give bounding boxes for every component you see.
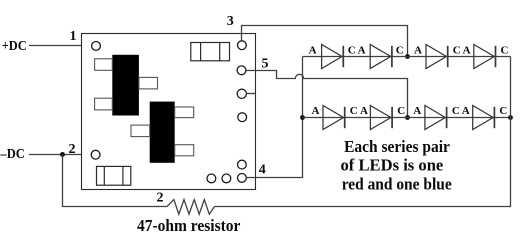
svg-text:2: 2 <box>69 142 76 157</box>
wire resistor to right return rail <box>215 206 512 208</box>
svg-text:C: C <box>350 105 358 117</box>
Q2 lead pad left <box>131 125 150 137</box>
junction row 2 left <box>300 115 305 120</box>
svg-text:A: A <box>462 105 470 117</box>
LED D8 triangle <box>473 106 494 130</box>
LED D2 triangle <box>370 45 391 69</box>
Q1 lead pad lower-left <box>95 98 113 110</box>
pin 3 pad <box>238 41 247 50</box>
unused pad left of pin 4 <box>207 174 216 183</box>
svg-text:1: 1 <box>70 29 77 44</box>
svg-text:A: A <box>414 44 422 56</box>
LED D6 triangle <box>370 106 391 130</box>
transistor Q1 body <box>112 55 139 116</box>
LED D2 cathode bar <box>391 46 393 67</box>
wire right return rail down <box>510 57 512 207</box>
resistor R3 47-ohm zigzag <box>167 200 215 215</box>
resistor R2 (SMD outline, bottom left) <box>97 166 131 185</box>
driver module board outline <box>82 34 256 190</box>
junction row 1 midpoint <box>405 54 410 59</box>
svg-text:A: A <box>413 105 421 117</box>
svg-text:A: A <box>360 105 368 117</box>
pin 1 pad <box>92 42 101 51</box>
LED D7 cathode bar <box>446 107 448 128</box>
LED D4 triangle <box>474 45 495 69</box>
svg-text:C: C <box>396 44 404 56</box>
svg-text:+DC: +DC <box>2 39 27 54</box>
svg-text:47-ohm resistor: 47-ohm resistor <box>137 216 241 235</box>
svg-text:red and one blue: red and one blue <box>342 175 452 194</box>
wire pin 3 up and over to row 1 midpoint <box>242 26 408 57</box>
resistor R1 (SMD outline, top right) <box>191 43 230 61</box>
Q2 lead pad lower-right <box>175 145 194 156</box>
wire -DC to pin 2 <box>29 154 91 156</box>
Q1 lead pad upper-left <box>95 59 113 71</box>
wire LED row 1 rail <box>303 56 511 58</box>
LED D3 cathode bar <box>447 46 449 67</box>
wire +DC to pin 1 <box>29 45 92 47</box>
LED D1 cathode bar <box>342 46 344 67</box>
LED D1 triangle <box>322 45 343 69</box>
unused pad 2 left of pin 4 <box>222 174 231 183</box>
svg-text:C: C <box>348 44 356 56</box>
LED D6 cathode bar <box>391 107 393 128</box>
wire pin 4 right then up to LED row starts <box>246 57 302 178</box>
unused pad with stub <box>237 89 256 98</box>
svg-text:A: A <box>309 44 317 56</box>
Q1 lead pad right <box>139 77 158 89</box>
svg-text:C: C <box>501 44 509 56</box>
svg-text:C: C <box>452 105 460 117</box>
transistor Q2 body <box>150 102 175 163</box>
unused pad above pin 4 <box>238 160 247 169</box>
svg-text:A: A <box>358 44 366 56</box>
LED D8 cathode bar <box>493 107 495 128</box>
svg-text:2: 2 <box>157 190 164 205</box>
Q2 lead pad upper-right <box>175 107 194 118</box>
svg-text:A: A <box>463 44 471 56</box>
svg-text:C: C <box>453 44 461 56</box>
svg-text:Each series pair: Each series pair <box>344 137 450 156</box>
svg-text:3: 3 <box>227 14 234 29</box>
wire pin 5 to row 2 midpoint (with hop) <box>246 71 408 118</box>
pin 4 pad <box>238 174 247 183</box>
wire -DC branch down and along bottom to resistor <box>63 155 168 207</box>
LED D7 triangle <box>425 106 446 130</box>
LED D5 triangle <box>323 106 344 130</box>
junction -DC / resistor branch <box>60 152 65 157</box>
svg-text:A: A <box>312 105 320 117</box>
LED D3 triangle <box>426 45 447 69</box>
svg-text:of LEDs is one: of LEDs is one <box>341 156 444 175</box>
junction row 2 right <box>508 115 513 120</box>
LED D4 cathode bar <box>495 46 497 67</box>
unused pad <box>238 113 247 122</box>
pin 5 pad <box>237 66 246 75</box>
junction row 2 midpoint <box>405 115 410 120</box>
svg-text:4: 4 <box>259 163 266 178</box>
pin 2 pad <box>91 150 100 159</box>
svg-text:–DC: –DC <box>0 147 25 162</box>
wire LED row 2 rail <box>303 117 511 119</box>
svg-text:C: C <box>499 105 507 117</box>
svg-text:C: C <box>397 105 405 117</box>
LED D5 cathode bar <box>344 107 346 128</box>
svg-text:5: 5 <box>262 56 269 71</box>
